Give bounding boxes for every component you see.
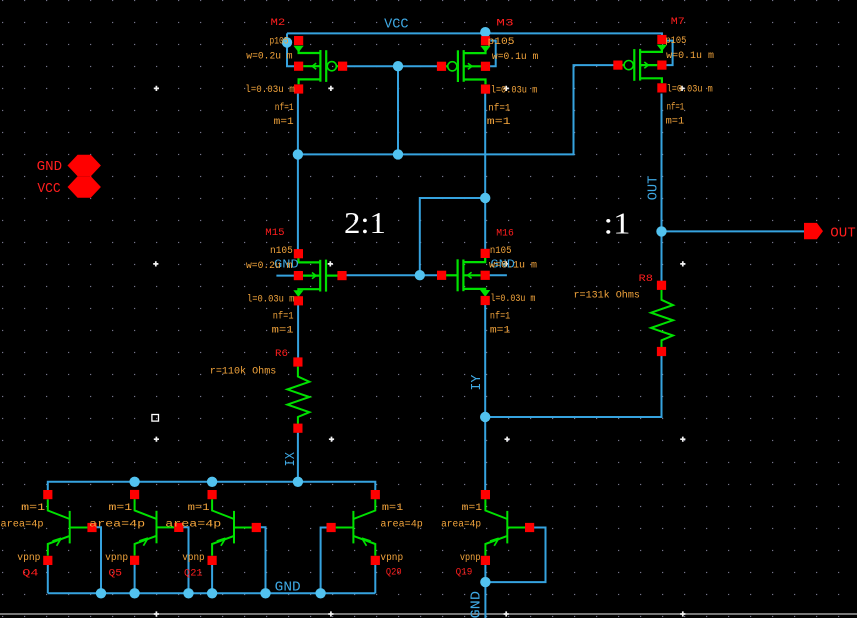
- svg-text:p105: p105: [488, 37, 515, 48]
- wire Q5 base to GND rail: [183, 527, 189, 593]
- coarse grid cross marker r4c4: [680, 611, 685, 616]
- wire OUT net: [662, 230, 806, 232]
- pnp Q20: [327, 490, 380, 565]
- svg-text:nf=1: nf=1: [667, 102, 685, 114]
- svg-text:m=1: m=1: [666, 116, 685, 127]
- svg-text:nf=1: nf=1: [273, 311, 294, 323]
- svg-text:area=4p: area=4p: [1, 519, 44, 530]
- svg-text:m=1: m=1: [462, 503, 482, 514]
- junction dot M2 bulk: [282, 37, 292, 47]
- svg-text:Q4: Q4: [22, 568, 38, 580]
- wire M2 bulk hook to VCC: [287, 33, 294, 66]
- coarse grid cross marker r2c3: [504, 261, 509, 266]
- svg-text:VCC: VCC: [37, 181, 60, 197]
- svg-text:vpnp: vpnp: [17, 553, 40, 564]
- svg-text:w=0.1u m: w=0.1u m: [492, 52, 538, 63]
- svg-text:M7: M7: [671, 16, 685, 28]
- wire M16 bulk GND stub: [489, 274, 507, 276]
- nmos M15: [293, 249, 346, 305]
- wire M3 drain branch to gates: [420, 198, 485, 275]
- wire R8 bottom to IY: [485, 351, 661, 417]
- svg-text:M15: M15: [265, 227, 284, 239]
- svg-text:r=131k Ohms: r=131k Ohms: [574, 289, 640, 301]
- svg-text:vpnp: vpnp: [460, 553, 481, 564]
- svg-text:r=110k Ohms: r=110k Ohms: [210, 365, 276, 377]
- wire R6 to IX rail: [297, 429, 299, 482]
- coarse grid cross marker r3c3: [505, 437, 510, 442]
- svg-text:area=4p: area=4p: [89, 519, 145, 530]
- svg-text:n105: n105: [270, 246, 293, 257]
- svg-text:m=1: m=1: [490, 325, 510, 336]
- pnp Q21: [208, 490, 261, 565]
- svg-text:w=0.1u m: w=0.1u m: [489, 261, 537, 272]
- svg-text:VCC: VCC: [384, 17, 409, 33]
- junction dot gate node: [393, 61, 403, 71]
- pnp Q5: [130, 490, 183, 565]
- svg-text:nf=1: nf=1: [488, 102, 510, 114]
- svg-text:vpnp: vpnp: [105, 553, 128, 564]
- wire gate node drop: [397, 66, 399, 154]
- svg-text:p105: p105: [665, 36, 686, 47]
- pnp Q4: [43, 490, 96, 565]
- svg-text:Q21: Q21: [184, 567, 203, 579]
- svg-text:GND: GND: [37, 159, 63, 175]
- coarse grid cross marker r1c4: [679, 86, 684, 91]
- coarse grid cross marker r3c4: [680, 437, 685, 442]
- svg-text:l=0.03u m: l=0.03u m: [247, 293, 294, 305]
- wire Q4 emitter down: [47, 565, 49, 594]
- wire IY net M16 source to Q19: [484, 301, 486, 491]
- svg-text:l=0.03u m: l=0.03u m: [491, 84, 538, 96]
- coarse grid cross marker r1c1: [154, 86, 159, 91]
- GND supply hexagon: [68, 155, 101, 176]
- wire M2 gate to M3 gate: [343, 65, 442, 67]
- svg-text:area=4p: area=4p: [380, 519, 423, 530]
- VCC supply hexagon: [68, 176, 101, 197]
- coarse grid cross marker r2c4: [680, 261, 685, 266]
- junction dot GND rail Q20 base: [315, 588, 325, 598]
- small white selection square: [152, 415, 159, 422]
- resistor R6: [287, 357, 309, 432]
- wire M15 gate to M16 gate: [342, 274, 443, 276]
- junction dot GND rail Q5 base: [183, 588, 193, 598]
- svg-text:vpnp: vpnp: [182, 553, 204, 564]
- pmos M3: [437, 36, 491, 94]
- wire M15 source to R6: [297, 301, 299, 363]
- svg-text:l=0.03u m: l=0.03u m: [667, 84, 713, 96]
- wire M15 bulk GND stub: [276, 275, 294, 277]
- svg-text:IY: IY: [469, 374, 485, 391]
- svg-text:m=1: m=1: [188, 503, 210, 514]
- wire Q4 base to GND rail: [96, 527, 102, 593]
- svg-text:R6: R6: [275, 348, 288, 360]
- svg-text:Q5: Q5: [109, 567, 123, 579]
- svg-text:m=1: m=1: [382, 503, 403, 514]
- svg-text:m=1: m=1: [274, 117, 294, 128]
- OUT output pin symbol: [804, 223, 823, 239]
- svg-text:OUT: OUT: [645, 176, 661, 201]
- wire VCC rail: [287, 33, 662, 40]
- svg-text:l=0.03u m: l=0.03u m: [490, 293, 535, 305]
- svg-text:Q20: Q20: [386, 566, 402, 578]
- wire M7 drain to R8: [661, 94, 663, 286]
- coarse grid cross marker r4c3: [504, 611, 509, 616]
- wire Q20 emitter down: [374, 565, 376, 594]
- coarse grid cross marker r2c2: [328, 261, 333, 266]
- svg-text:area=4p: area=4p: [165, 519, 221, 530]
- wire Q21 base to GND rail: [260, 527, 265, 593]
- svg-text:p105: p105: [270, 37, 289, 48]
- wire M2 drain to M15 drain: [297, 93, 299, 250]
- svg-text:nf=1: nf=1: [490, 310, 510, 322]
- coarse grid cross marker r3c1: [154, 437, 159, 442]
- svg-text::1: :1: [604, 206, 631, 241]
- svg-text:w=0.2u m: w=0.2u m: [246, 52, 292, 63]
- nmos M16: [437, 249, 490, 305]
- coarse grid cross marker r2c1: [153, 261, 158, 266]
- svg-text:IX: IX: [283, 451, 299, 466]
- coarse grid cross marker r1c2: [328, 86, 333, 91]
- junction dot Q19 emitter GND: [480, 577, 490, 587]
- svg-text:area=4p: area=4p: [441, 519, 481, 530]
- junction dot M3 drain branch: [480, 193, 490, 203]
- resistor R8: [651, 281, 673, 356]
- svg-text:GND: GND: [468, 591, 484, 618]
- sheet boundary line bottom: [0, 613, 857, 614]
- svg-text:w=0.2u m: w=0.2u m: [246, 261, 292, 272]
- wire Q19 base hook: [485, 528, 545, 583]
- junction dot IX rail at Q5: [129, 477, 139, 487]
- svg-text:m=1: m=1: [272, 326, 294, 337]
- pnp Q19: [481, 490, 534, 565]
- coarse grid cross marker r3c2: [329, 437, 334, 442]
- junction dot GND rail Q21 emitter: [207, 588, 217, 598]
- coarse grid cross marker r4c2: [328, 611, 333, 616]
- wire Q19 emitter to GND: [484, 565, 486, 618]
- junction dot M3 source at VCC: [480, 27, 490, 37]
- wire IX rail: [48, 482, 376, 491]
- wire M7 bulk hook: [666, 41, 672, 66]
- junction dot IY node: [480, 412, 490, 422]
- wire Q5 emitter down: [134, 565, 136, 594]
- svg-text:m=1: m=1: [109, 503, 133, 514]
- pmos M7: [613, 35, 667, 93]
- wire Q21 emitter down: [211, 565, 213, 594]
- junction dot IX rail at Q21: [207, 477, 217, 487]
- wire GND rail: [48, 592, 376, 594]
- junction dot mirror node left: [293, 149, 303, 159]
- wire M3 bulk hook: [490, 41, 496, 67]
- svg-text:vpnp: vpnp: [380, 553, 403, 564]
- svg-text:M16: M16: [496, 228, 514, 240]
- coarse grid cross marker r1c3: [504, 86, 509, 91]
- svg-text:2:1: 2:1: [344, 205, 386, 240]
- wire M3 drain to M16 drain: [484, 93, 486, 249]
- svg-text:n105: n105: [490, 246, 512, 257]
- svg-text:M3: M3: [496, 17, 513, 29]
- junction dot mirror node mid: [393, 149, 403, 159]
- junction dot gate row: [415, 270, 425, 280]
- svg-text:R8: R8: [639, 273, 654, 285]
- junction dot GND rail Q4 base: [96, 588, 106, 598]
- svg-text:m=1: m=1: [21, 503, 45, 514]
- junction dot GND rail Q5 emitter: [129, 588, 139, 598]
- svg-text:nf=1: nf=1: [275, 102, 294, 114]
- svg-text:OUT: OUT: [830, 226, 856, 242]
- svg-text:M2: M2: [271, 17, 286, 29]
- svg-text:l=0.03u m: l=0.03u m: [245, 84, 294, 96]
- junction dot OUT node: [656, 226, 666, 236]
- junction dot IX rail at R6: [293, 477, 303, 487]
- wire Q20 base to GND rail: [321, 528, 328, 594]
- svg-text:Q19: Q19: [456, 566, 473, 578]
- svg-text:GND: GND: [275, 580, 301, 596]
- pmos M2: [294, 36, 348, 94]
- svg-text:m=1: m=1: [487, 117, 511, 128]
- coarse grid cross marker r4c1: [154, 611, 159, 616]
- wire mirror node to M7 gate: [298, 65, 617, 154]
- junction dot GND rail Q21 base: [260, 588, 270, 598]
- svg-text:w=0.1u m: w=0.1u m: [666, 51, 714, 62]
